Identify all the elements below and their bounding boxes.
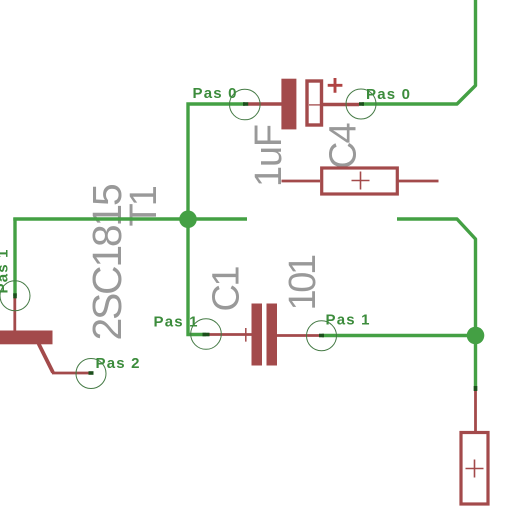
capacitor C1 right plate [267,304,278,366]
svg-text:101: 101 [282,255,324,310]
capacitor C4 pin line through plate [309,104,320,106]
transistor T1 base bar [0,331,53,345]
transistor T1 base lead [13,298,16,332]
wire junction down to C1 left pin [188,219,206,335]
pin contact dot Pas0 right [359,102,364,106]
wire R1 right lead [399,180,439,183]
pin circle Pas0 right [346,89,376,119]
pin circle C1 right [307,321,337,351]
junction dot left [179,211,197,229]
svg-text:Pas 1: Pas 1 [0,248,12,293]
capacitor C4 negative plate outline [307,81,322,125]
pin contact dot C1 left [203,333,210,337]
wire horizontal base net [13,217,247,220]
resistor R1 origin cross [352,172,370,190]
pin contact dot Pas2 [89,371,94,375]
capacitor C1 left plate [252,304,263,366]
svg-text:Pas 0: Pas 0 [366,86,411,103]
pin contact dot base [13,293,17,298]
wire C1 left lead [208,333,252,336]
origin cross C1 [239,328,253,342]
pin circle Pas0 left [230,89,261,120]
resistor R2 top lead [474,391,477,433]
wire R1 left lead [282,180,321,183]
wire net right vertical with diagonal to Pas0 [362,0,476,104]
wire Pas0 left to corner down [188,104,245,219]
pin circle transistor base [0,281,30,311]
polarity plus C4 [328,78,343,93]
pin circle Pas2 emitter [76,359,106,389]
svg-text:Pas 1: Pas 1 [326,312,371,329]
transistor T1 emitter diagonal [39,344,54,373]
resistor R1 body [322,168,398,194]
wire right net horizontal diagonal vertical down [397,219,476,391]
wire left vertical to transistor base [13,218,16,296]
transistor T1 emitter lead [52,372,89,375]
svg-text:Pas 1: Pas 1 [154,314,199,331]
resistor R2 origin cross [466,460,484,478]
svg-text:C4: C4 [323,123,365,169]
wire C1 right pin to right junction [322,334,476,337]
svg-text:Pas 0: Pas 0 [193,85,238,102]
pin contact dot C1 right [319,334,324,338]
junction dot right [467,327,485,345]
pin contact dot R2 top [474,386,478,391]
resistor R2 body [461,433,488,505]
wire C4 right lead [323,103,360,106]
wire C4 left lead [248,102,282,105]
wire C1 right lead [277,334,320,337]
pin circle C1 left [191,319,222,350]
svg-text:C1: C1 [206,267,248,312]
pin contact dot Pas0 left [243,102,248,106]
svg-text:Pas 2: Pas 2 [96,355,141,372]
svg-text:1uF: 1uF [248,125,290,187]
capacitor C4 positive plate [281,79,296,130]
